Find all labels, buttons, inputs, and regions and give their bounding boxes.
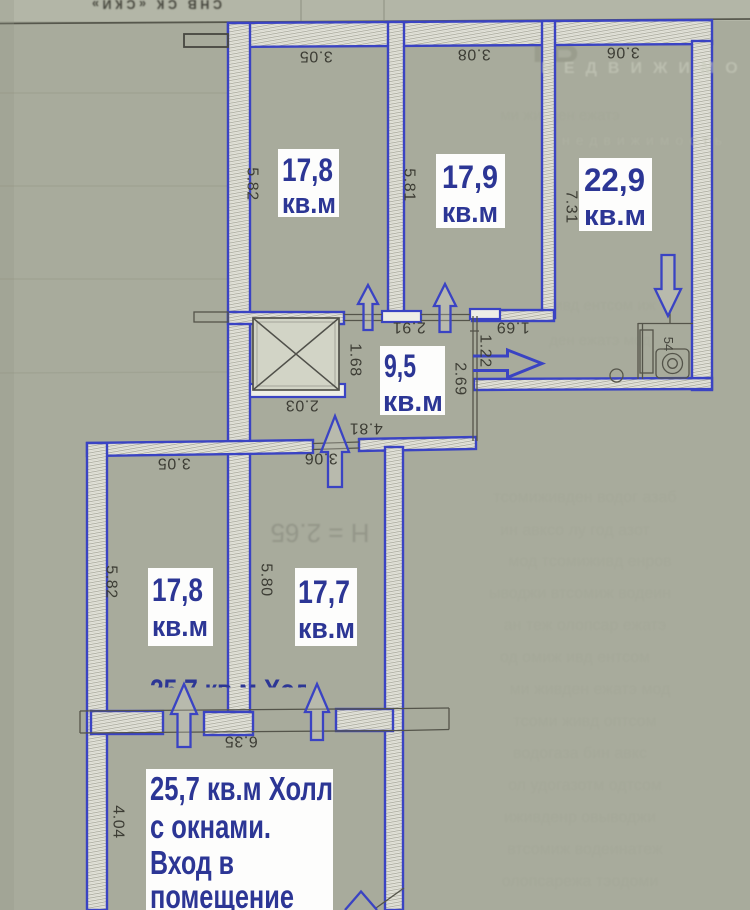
svg-text:5.82: 5.82 [103, 565, 120, 599]
svg-text:9,5: 9,5 [384, 348, 416, 384]
wc cabinet [640, 330, 653, 373]
door threshold in hall doorway [313, 442, 359, 444]
faint horizontal scan lines left area [0, 93, 228, 373]
svg-text:кв.м: кв.м [152, 611, 208, 643]
entry arrow right into 22,9 area [473, 350, 542, 378]
svg-text:5.80: 5.80 [258, 563, 275, 597]
window band lines [80, 709, 403, 712]
thin wall segment at door 17,9 [421, 314, 470, 316]
wall: bottom wall of room 22,9 [474, 378, 712, 390]
blue arrows [171, 255, 681, 910]
svg-text:5.82: 5.82 [244, 167, 261, 201]
dimension labels upside down [157, 44, 640, 750]
door arrow room 17,9 [434, 284, 456, 332]
svg-text:ин авксо лу год азот: ин авксо лу год азот [500, 522, 650, 539]
thin wall segment left of door 17,8 [344, 314, 382, 316]
svg-text:кв.м: кв.м [383, 386, 443, 418]
svg-text:17,8: 17,8 [152, 572, 203, 608]
svg-text:тсоми живд оптсом: тсоми живд оптсом [513, 713, 656, 730]
ledge left of lift wall [194, 312, 228, 322]
wall: left wall of upper section continuing to window band [228, 23, 250, 712]
svg-text:3.06: 3.06 [304, 450, 338, 467]
svg-text:недвижимость: недвижимость [562, 132, 728, 148]
svg-text:4.04: 4.04 [110, 805, 127, 839]
svg-text:втсомиж водеинатеж: втсомиж водеинатеж [507, 841, 663, 858]
blue door jamb bars [250, 309, 500, 397]
room label 17,9 [436, 154, 505, 229]
room label 17,7 [295, 568, 357, 646]
wc partition [637, 323, 639, 379]
wall: lower section top wall left part [87, 440, 313, 456]
svg-text:Вход в: Вход в [150, 844, 234, 881]
svg-text:3.06: 3.06 [606, 44, 640, 61]
svg-text:54: 54 [661, 337, 676, 351]
wall: long right wall of lower section [385, 447, 403, 910]
wall: bottom wall of room 17,9 [472, 310, 554, 321]
door arrow room 22,9 (down) [655, 255, 681, 316]
svg-text:СНВ СК «СКИ»: СНВ СК «СКИ» [92, 0, 222, 11]
bottom edge arrow tip [345, 892, 377, 910]
svg-text:17,9: 17,9 [442, 159, 498, 195]
dimension labels vertical [103, 167, 580, 839]
svg-text:17,7: 17,7 [298, 574, 350, 610]
wall: top outer wall [228, 20, 712, 47]
watermark rows bottom right [489, 489, 677, 890]
svg-text:помещение: помещение [150, 878, 294, 910]
wall: left outer wall lower section [87, 443, 107, 910]
room label 17,8 upper [278, 149, 339, 220]
svg-text:6.35: 6.35 [224, 733, 258, 750]
svg-text:мод тсомиживд енров: мод тсомиживд енров [508, 553, 671, 570]
wall: right outer wall [692, 41, 712, 390]
svg-text:5.81: 5.81 [401, 168, 418, 202]
hall doorway arrow [321, 416, 349, 487]
svg-text:кв.м: кв.м [298, 613, 355, 645]
svg-text:ми живден ежатэ мод: ми живден ежатэ мод [510, 681, 671, 698]
thin drawn lines [80, 34, 693, 733]
svg-text:ми живден ежатэ: ми живден ежатэ [500, 107, 620, 124]
svg-text:кв.м: кв.м [442, 197, 498, 229]
svg-text:водогаза бин авкс: водогаза бин авкс [513, 745, 647, 762]
svg-text:ыводжи втсомиж водеин: ыводжи втсомиж водеин [489, 585, 671, 602]
wall: partition between rooms 17,9 and 22,9 [542, 21, 555, 318]
svg-text:3.05: 3.05 [157, 455, 191, 472]
svg-text:живд ентсом иж: живд ентсом иж [544, 297, 655, 314]
svg-text:3.08: 3.08 [457, 46, 491, 63]
window door arrow right [305, 684, 329, 740]
top border line of scan [0, 19, 750, 24]
window door arrow left [171, 684, 197, 747]
wall: lower section top wall right part [359, 437, 476, 451]
svg-text:с окнами.: с окнами. [150, 808, 271, 845]
svg-text:1.68: 1.68 [347, 343, 364, 377]
svg-text:25,7 кв.м Холл: 25,7 кв.м Холл [150, 770, 333, 807]
svg-text:1.22: 1.22 [477, 334, 494, 368]
svg-text:ден ежатэ мод: ден ежатэ мод [549, 332, 651, 349]
top lighter strip [0, 0, 750, 21]
hall label box [146, 769, 333, 910]
svg-text:тсомиживден водог азаб: тсомиживден водог азаб [493, 489, 676, 506]
svg-text:17,8: 17,8 [282, 152, 333, 188]
svg-text:од омиж ивд ентсом: од омиж ивд ентсом [500, 649, 650, 666]
svg-text:кв.м: кв.м [584, 200, 646, 232]
thin corridor wall [472, 316, 474, 441]
ledge top left [184, 34, 228, 47]
lift shaft [253, 318, 339, 390]
svg-text:ан теж олопсар ежатэ: ан теж олопсар ежатэ [504, 617, 667, 634]
svg-text:2.03: 2.03 [285, 397, 319, 414]
svg-text:2.69: 2.69 [452, 362, 469, 396]
jamb bar below lift shaft [250, 384, 345, 397]
covered text fragment 25,7 [150, 674, 310, 707]
svg-text:H = 2.65: H = 2.65 [270, 518, 369, 548]
svg-text:иживденр овыводжи: иживденр овыводжи [504, 809, 656, 826]
svg-text:кв.м: кв.м [282, 188, 336, 220]
jamb bar below partition 17,8/17,9 [382, 311, 421, 322]
svg-text:22,9: 22,9 [584, 162, 645, 198]
toilet [656, 349, 689, 378]
svg-text:7.31: 7.31 [563, 190, 580, 224]
jamb bar left end of 17,9 bottom wall [470, 309, 500, 319]
svg-text:3.05: 3.05 [299, 48, 333, 65]
svg-text:ол удогазотм одтсом: ол удогазотм одтсом [508, 777, 662, 794]
small fixture circle on wall [610, 369, 623, 382]
diagonal mark bottom of long wall [376, 888, 404, 908]
room label 9,5 [380, 346, 445, 418]
room label 22,9 [579, 158, 652, 232]
window pier 2 [204, 712, 253, 735]
svg-text:2.91: 2.91 [392, 319, 426, 336]
window pier 1 [91, 711, 163, 734]
top scan vertical marks [300, 0, 302, 21]
svg-text:олопсарежа тэодоми: олопсарежа тэодоми [502, 873, 659, 890]
svg-text:4.81: 4.81 [349, 420, 383, 437]
watermark rows inside right rooms [500, 107, 655, 349]
svg-text:1.69: 1.69 [496, 319, 530, 336]
svg-text:НЕДВИЖИМО: НЕДВИЖИМО [541, 60, 748, 77]
room label 17,8 lower [148, 568, 213, 646]
door arrow room 17,8 [358, 285, 378, 330]
wall: partition between rooms 17,8 and 17,9 [388, 22, 404, 320]
wall: top of lift shaft [228, 312, 344, 324]
window pier 3 [336, 709, 393, 731]
